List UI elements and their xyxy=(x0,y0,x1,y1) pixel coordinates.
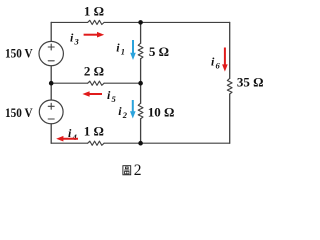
wire top-right segment xyxy=(104,21,230,23)
node junction top xyxy=(138,20,143,25)
svg-text:4: 4 xyxy=(72,132,77,142)
voltage source V1 150V xyxy=(39,41,63,65)
caption figure glyph (CJK tu) xyxy=(123,166,131,175)
V2 minus sign xyxy=(48,118,54,120)
resistor R4 10ohm xyxy=(138,103,143,119)
svg-text:1 Ω: 1 Ω xyxy=(84,123,104,138)
wire bottom-left segment xyxy=(51,142,87,144)
node junction middle-left xyxy=(49,81,54,86)
svg-text:i: i xyxy=(107,88,111,102)
V1 minus sign xyxy=(48,60,54,62)
svg-text:10 Ω: 10 Ω xyxy=(148,105,175,120)
V1 plus sign xyxy=(48,44,54,50)
wire middle-left segment xyxy=(51,82,87,84)
wire right branch upper xyxy=(229,22,231,78)
svg-text:i: i xyxy=(70,30,74,44)
svg-text:i: i xyxy=(116,40,120,54)
svg-text:2 Ω: 2 Ω xyxy=(84,63,104,78)
V2 plus sign xyxy=(48,103,54,109)
wire mid branch lower xyxy=(140,119,142,143)
node junction bottom xyxy=(138,141,143,146)
arrow current i2 blue down xyxy=(130,100,136,119)
wire bottom-right segment xyxy=(104,142,230,144)
wire mid branch upper xyxy=(140,22,142,43)
wire left branch middle xyxy=(50,66,52,100)
svg-text:2: 2 xyxy=(122,110,128,120)
svg-text:35 Ω: 35 Ω xyxy=(237,75,264,90)
resistor R5 1ohm bottom xyxy=(88,141,104,145)
arrow current i3 red right xyxy=(84,32,105,38)
arrow current i6 red down xyxy=(222,48,228,72)
resistor R6 35ohm xyxy=(227,78,232,94)
svg-text:i: i xyxy=(211,55,215,69)
resistor R3 2ohm xyxy=(88,81,104,85)
wire mid branch middle xyxy=(140,59,142,103)
resistor R1 1ohm top xyxy=(88,20,104,24)
wire left branch upper xyxy=(50,22,52,41)
wire left branch lower xyxy=(50,124,52,143)
voltage source V2 150V xyxy=(39,100,63,124)
arrow current i1 blue down xyxy=(130,40,136,60)
svg-text:150 V: 150 V xyxy=(5,45,33,60)
svg-text:5: 5 xyxy=(112,94,117,104)
svg-text:6: 6 xyxy=(216,61,221,71)
resistor R2 5ohm xyxy=(138,43,143,59)
svg-text:150 V: 150 V xyxy=(5,105,33,120)
svg-text:2: 2 xyxy=(134,162,142,179)
wire top-left segment xyxy=(51,21,87,23)
wire middle-right segment xyxy=(104,82,141,84)
svg-text:5 Ω: 5 Ω xyxy=(149,44,169,59)
node junction middle xyxy=(138,81,143,86)
svg-text:3: 3 xyxy=(74,36,80,46)
wire right branch lower xyxy=(229,94,231,143)
svg-text:1 Ω: 1 Ω xyxy=(84,3,104,18)
svg-text:i: i xyxy=(118,104,122,118)
arrow current i5 red left xyxy=(82,91,102,97)
arrow current i4 red left xyxy=(56,136,78,142)
svg-text:1: 1 xyxy=(121,46,125,56)
